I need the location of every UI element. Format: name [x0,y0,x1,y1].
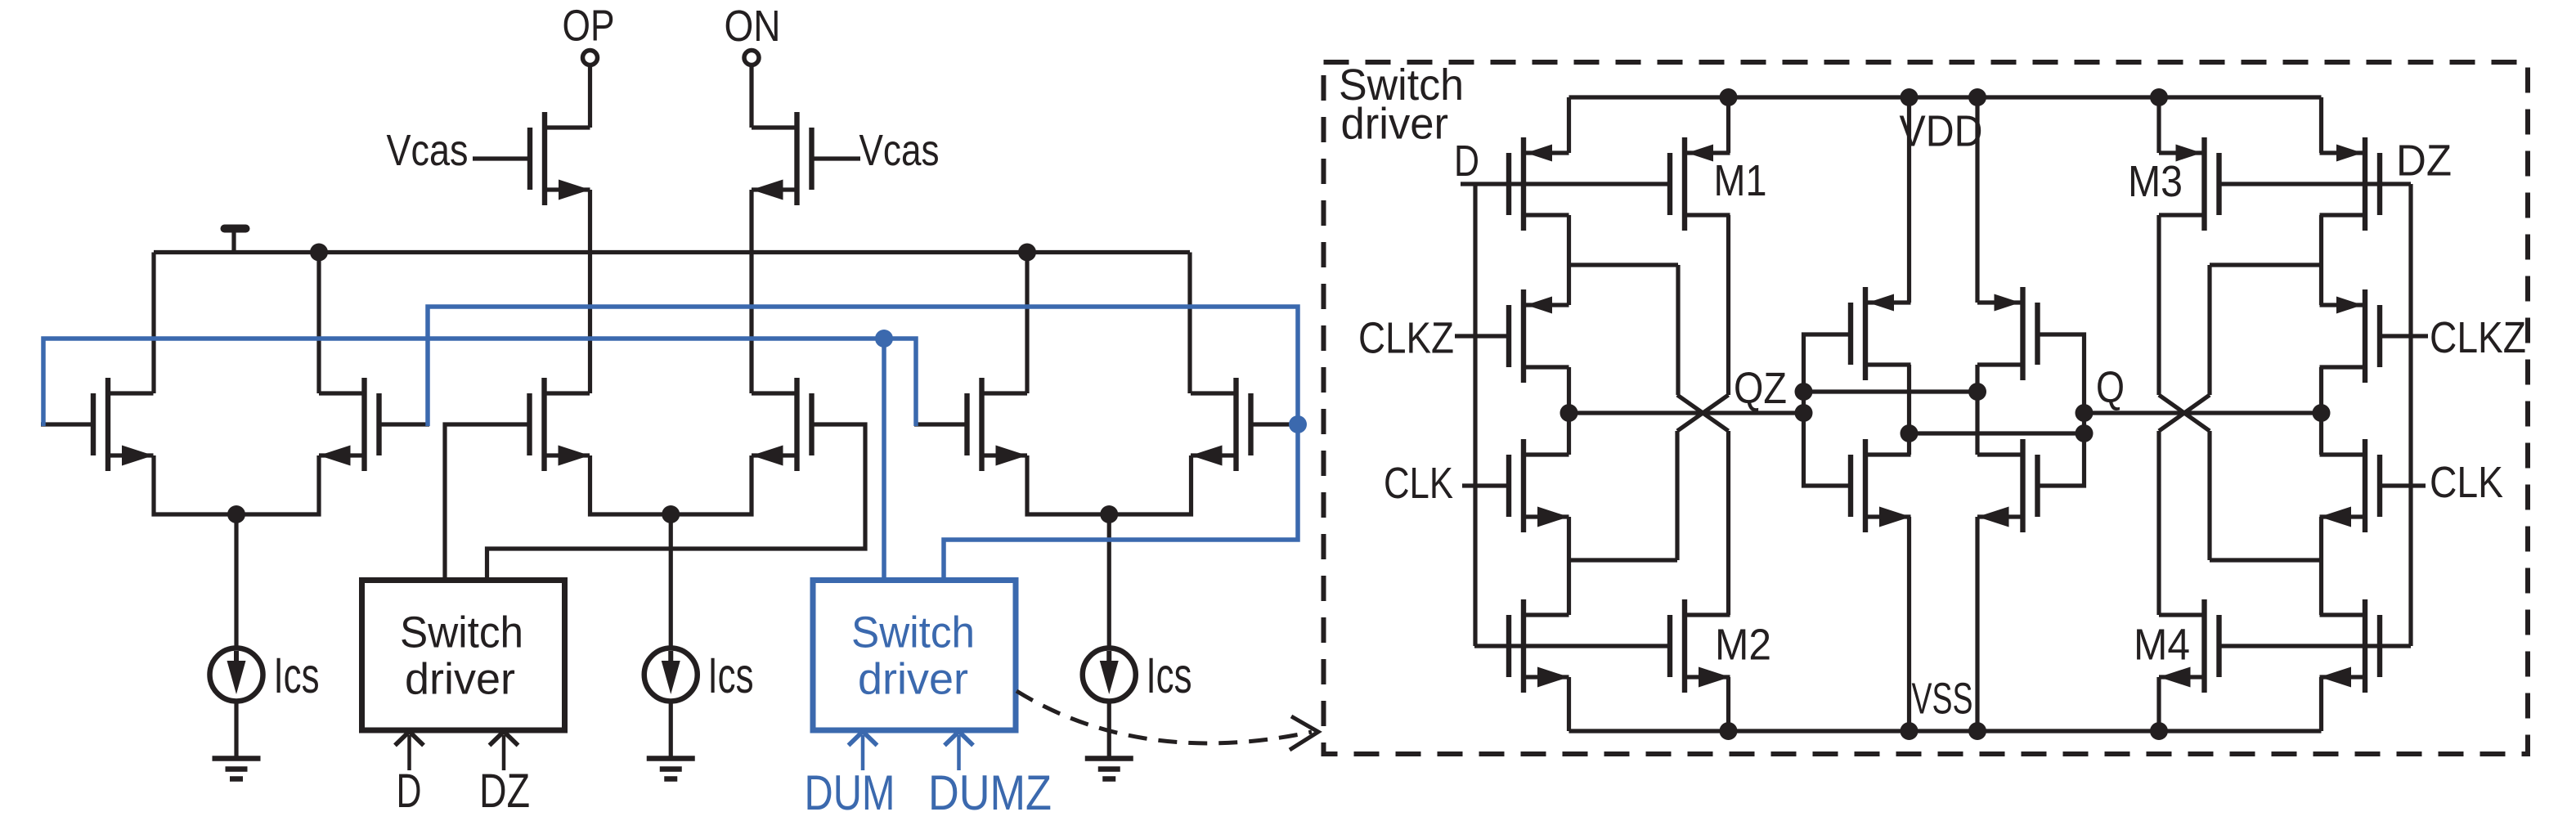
svg-text:Ics: Ics [1147,648,1192,703]
svg-text:driver: driver [1341,100,1449,149]
svg-text:VDD: VDD [1900,107,1983,156]
svg-text:OP: OP [563,2,615,51]
svg-text:CLKZ: CLKZ [1358,314,1454,363]
svg-text:Ics: Ics [708,648,754,703]
svg-text:M4: M4 [2134,621,2190,670]
svg-text:DZ: DZ [2396,137,2452,186]
svg-text:Ics: Ics [274,648,320,703]
svg-text:DUMZ: DUMZ [928,765,1052,820]
svg-text:D: D [397,765,422,818]
svg-text:ON: ON [725,2,781,51]
svg-text:Vcas: Vcas [859,126,940,175]
svg-text:Q: Q [2096,363,2125,412]
svg-text:M3: M3 [2128,157,2183,206]
svg-text:Switch: Switch [851,608,975,657]
svg-text:M1: M1 [1714,156,1767,205]
svg-text:Switch: Switch [400,608,523,657]
svg-text:D: D [1454,137,1479,186]
svg-text:DZ: DZ [479,765,530,818]
svg-text:CLKZ: CLKZ [2430,313,2526,362]
svg-text:driver: driver [405,655,515,704]
svg-text:CLK: CLK [2430,458,2503,507]
svg-text:DUM: DUM [805,765,895,820]
svg-text:VSS: VSS [1912,675,1973,724]
svg-text:CLK: CLK [1384,459,1453,508]
svg-text:QZ: QZ [1734,364,1787,413]
svg-text:M2: M2 [1715,621,1771,670]
svg-text:Vcas: Vcas [387,126,469,175]
svg-text:driver: driver [858,655,968,704]
